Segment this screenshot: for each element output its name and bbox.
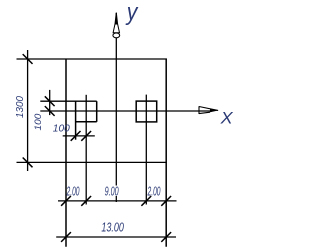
tick row1 at left centerline: [81, 196, 91, 206]
wire right opening centerline extended to bottom dimension: [145, 95, 147, 205]
tick row2 right: [161, 232, 171, 242]
svg-text:100: 100: [53, 124, 70, 135]
tick 100 top: [45, 96, 55, 106]
svg-text:13.00: 13.00: [101, 219, 124, 234]
tick 100 bottom: [45, 106, 55, 116]
svg-text:2.00: 2.00: [147, 184, 161, 199]
wire left opening right edge: [96, 101, 98, 122]
tick row2 left: [61, 232, 71, 242]
wire left opening top edge with left extension: [40, 100, 96, 102]
wire right edge of plate extended to bottom dimension: [165, 59, 167, 247]
wire top edge of plate with left extension: [17, 58, 167, 60]
wire y-axis line: [115, 13, 117, 202]
wire left edge of plate extended to bottom dimension: [65, 59, 67, 247]
svg-text:1300: 1300: [15, 96, 26, 118]
wire left opening centerline extended to bottom dimension: [85, 95, 87, 205]
svg-text:X: X: [220, 109, 234, 127]
x-axis arrow: [199, 106, 219, 114]
svg-text:y: y: [125, 0, 139, 26]
svg-text:100: 100: [33, 114, 43, 131]
tick row1 at left edge: [61, 196, 71, 206]
svg-text:9.00: 9.00: [105, 184, 119, 199]
wire dimension line 100 horizontal below opening: [63, 135, 95, 137]
svg-text:2.00: 2.00: [66, 183, 80, 198]
wire dimension line 1300 vertical left: [27, 50, 29, 171]
tick 1300 top: [23, 54, 33, 64]
wire dimension line 100 vertical left: [49, 90, 51, 115]
label 9.00: [104, 186, 121, 197]
node right opening square: [136, 101, 157, 122]
tick 100h right: [81, 131, 91, 141]
wire left opening bottom edge: [76, 121, 97, 123]
tick row1 at right centerline: [141, 196, 151, 206]
tick row1 at right edge: [161, 196, 171, 206]
tick 1300 bottom: [23, 158, 33, 168]
wire bottom dimension line row 1: [58, 200, 177, 202]
tick 100h left: [71, 131, 81, 141]
wire bottom edge of plate with left extension: [17, 161, 167, 163]
wire x-axis line: [40, 110, 212, 112]
wire left opening left edge extended down: [75, 101, 77, 140]
tick marks: [23, 54, 171, 242]
wire bottom dimension line row 2: [56, 236, 176, 238]
y-axis arrow: [113, 13, 120, 38]
